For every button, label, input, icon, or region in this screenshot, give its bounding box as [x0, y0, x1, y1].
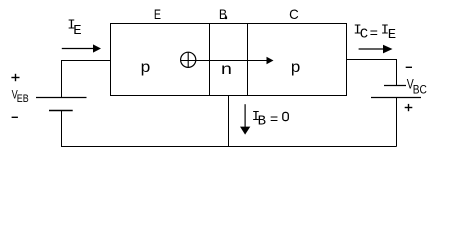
I_C arrow	[359, 48, 385, 50]
battery V_EB long plate	[36, 97, 87, 99]
svg-text:BC: BC	[413, 84, 427, 96]
svg-text:n: n	[221, 61, 232, 78]
svg-text:C: C	[289, 6, 299, 22]
wire battery V_EB to bottom rail	[61, 111, 63, 147]
wire collector to battery V_BC	[347, 60, 397, 86]
B-C junction line	[247, 24, 249, 96]
minus sign right	[406, 66, 412, 68]
svg-text:B: B	[258, 113, 266, 129]
hole flow arrow	[181, 60, 268, 62]
bottom rail wire	[61, 146, 397, 148]
svg-text:E: E	[388, 27, 396, 43]
hole symbol (circled plus)	[181, 52, 196, 67]
battery V_EB short plate	[49, 110, 73, 112]
I_E arrow	[62, 48, 95, 50]
svg-text:EB: EB	[17, 93, 29, 105]
base wire to bottom rail	[228, 96, 230, 147]
battery V_BC short plate	[384, 85, 406, 87]
svg-text:E: E	[154, 6, 161, 22]
svg-text:p: p	[291, 59, 300, 76]
E-B junction line	[209, 24, 211, 96]
stray dot after B	[225, 16, 227, 19]
svg-text:B: B	[219, 6, 227, 22]
svg-text:C: C	[360, 26, 368, 42]
svg-text:=: =	[270, 113, 278, 129]
svg-text:E: E	[73, 23, 81, 39]
I_B arrow	[244, 104, 246, 127]
wire battery V_BC to bottom rail	[396, 98, 398, 147]
minus sign left	[12, 116, 18, 118]
svg-text:=: =	[370, 27, 378, 43]
plus sign left	[11, 77, 19, 79]
wire emitter to battery V_EB	[62, 61, 111, 98]
transistor body box (E-B-C regions)	[111, 24, 347, 96]
plus sign right	[405, 107, 413, 109]
battery V_BC long plate	[371, 97, 421, 99]
svg-text:p: p	[141, 59, 151, 76]
